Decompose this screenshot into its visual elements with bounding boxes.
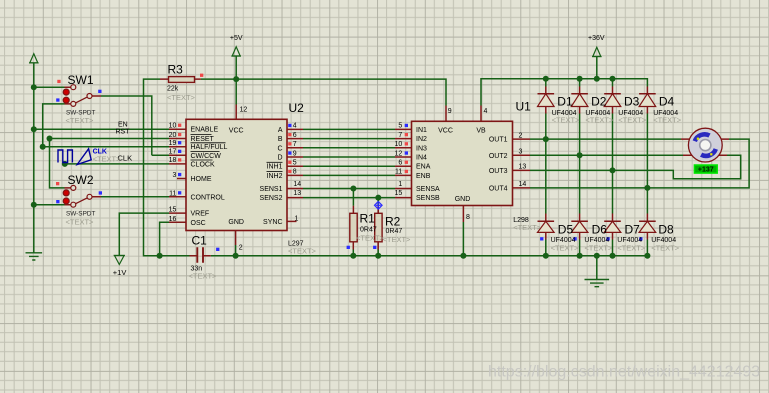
U2 SYNC pin stub (pin 1) xyxy=(287,220,297,222)
junction dot clock generator xyxy=(62,161,68,167)
diode D7 stubs xyxy=(612,214,614,240)
svg-text:4: 4 xyxy=(484,108,488,115)
svg-text:CW/CCW: CW/CCW xyxy=(191,153,222,160)
resistor R1 body xyxy=(350,213,357,242)
svg-text:D7: D7 xyxy=(625,223,641,237)
svg-text:14: 14 xyxy=(293,181,301,188)
svg-text:10: 10 xyxy=(395,141,403,148)
wire: left power vertical x=34 xyxy=(33,63,35,253)
diode D7 xyxy=(604,221,621,232)
svg-text:<TEXT>: <TEXT> xyxy=(618,115,647,124)
svg-text:<TEXT>: <TEXT> xyxy=(584,243,613,252)
svg-text:GND: GND xyxy=(455,196,471,203)
svg-text:3: 3 xyxy=(519,149,523,156)
svg-text:OUT2: OUT2 xyxy=(489,153,508,160)
svg-text:+137: +137 xyxy=(698,167,714,174)
svg-text:SENS2: SENS2 xyxy=(260,195,283,202)
R3 terminal stubs xyxy=(160,78,201,80)
svg-text:IN2: IN2 xyxy=(416,136,427,143)
svg-text:<TEXT>: <TEXT> xyxy=(552,115,581,124)
svg-text:VREF: VREF xyxy=(191,211,210,218)
U1 right pin stubs xyxy=(513,139,531,188)
junction dots bottom rail xyxy=(157,253,163,259)
svg-text:+1V: +1V xyxy=(113,268,127,277)
switch SW1 xyxy=(63,85,92,107)
junction dots sense rows xyxy=(350,186,356,192)
diode D8 xyxy=(639,221,656,232)
svg-text:4: 4 xyxy=(293,123,297,130)
svg-text:INH1: INH1 xyxy=(267,164,283,171)
ground (below diodes) xyxy=(585,280,610,287)
U1 top pin stubs (9, 4) xyxy=(446,106,481,122)
wire: SW2 pole to CONTROL row xyxy=(101,196,169,198)
wire: +5V vertical into U2 VCC xyxy=(235,56,237,105)
ground (bottom left) xyxy=(26,253,43,260)
svg-text:17: 17 xyxy=(169,149,177,156)
svg-text:C1: C1 xyxy=(192,234,208,248)
svg-text:12: 12 xyxy=(395,150,403,157)
wire: U2-U1 row C-IN3 xyxy=(303,147,395,149)
wire: U2-U1 row A-IN1 xyxy=(303,128,395,130)
SW2 pin stubs xyxy=(65,188,102,205)
wire: OUT3 row jog under motor to right terminal xyxy=(530,155,741,179)
svg-text:D6: D6 xyxy=(592,223,608,237)
svg-text:6: 6 xyxy=(398,160,402,167)
svg-text:https://blog.csdn.net/weixin_4: https://blog.csdn.net/weixin_44212493 xyxy=(488,364,760,381)
svg-text:VCC: VCC xyxy=(229,127,244,134)
resistor R2 body xyxy=(375,213,382,242)
svg-text:R3: R3 xyxy=(168,63,184,77)
wire: R1 top branch xyxy=(352,189,354,206)
wire: ENABLE row to left rail xyxy=(34,128,169,130)
svg-text:<TEXT>: <TEXT> xyxy=(288,247,317,256)
wire: CLOCK row from generator xyxy=(65,163,169,165)
svg-text:11: 11 xyxy=(169,190,176,197)
svg-text:C: C xyxy=(277,145,282,152)
diode D4 stubs xyxy=(646,87,648,114)
logic state squares (red/blue pin markers) xyxy=(56,74,643,251)
svg-text:GND: GND xyxy=(228,219,244,226)
svg-text:D3: D3 xyxy=(624,95,640,109)
svg-text:D4: D4 xyxy=(659,95,675,109)
diode D3 stubs xyxy=(612,87,614,114)
svg-text:3: 3 xyxy=(172,172,176,179)
svg-text:OSC: OSC xyxy=(191,220,206,227)
R1 terminal stubs xyxy=(352,206,354,250)
wire: SENS1-SENSA row xyxy=(303,188,395,190)
svg-text:7: 7 xyxy=(398,132,402,139)
svg-text:EN: EN xyxy=(118,121,128,128)
svg-text:<TEXT>: <TEXT> xyxy=(513,223,542,232)
svg-text:HALF/FULL: HALF/FULL xyxy=(191,144,228,151)
svg-text:OUT3: OUT3 xyxy=(489,168,508,175)
U2 right pin stubs xyxy=(287,129,303,197)
svg-text:13: 13 xyxy=(519,164,527,171)
svg-text:U2: U2 xyxy=(289,101,305,115)
svg-text:SW2: SW2 xyxy=(68,173,94,187)
svg-text:11: 11 xyxy=(395,169,402,176)
svg-text:<TEXT>: <TEXT> xyxy=(551,243,580,252)
svg-text:SW1: SW1 xyxy=(68,73,94,87)
wire: OSC row down to bottom rail xyxy=(160,222,169,255)
svg-text:D2: D2 xyxy=(591,95,607,109)
svg-text:IN4: IN4 xyxy=(416,155,427,162)
diode D5 stubs xyxy=(545,214,547,240)
wire: OUT2 row to motor xyxy=(530,154,683,156)
svg-text:<TEXT>: <TEXT> xyxy=(617,243,646,252)
wire: R2 bottom to rail xyxy=(377,250,379,256)
wire: SW1 top throw to left rail xyxy=(34,86,65,88)
wire: U2-U1 row D-IN4 xyxy=(303,156,395,158)
svg-text:2: 2 xyxy=(239,245,243,252)
wire: bottom rail C1 to D8 column xyxy=(211,255,648,257)
diode D3 xyxy=(604,94,621,107)
svg-text:ENABLE: ENABLE xyxy=(191,127,219,134)
svg-text:15: 15 xyxy=(395,190,403,197)
junction dot +5V/R3 node xyxy=(233,76,239,82)
svg-text:U1: U1 xyxy=(516,100,532,114)
wire: VREF row to +1V terminal xyxy=(119,213,169,255)
origin marker (blue diamond) xyxy=(375,202,383,210)
wire: U2-U1 row B-IN2 xyxy=(303,138,395,140)
svg-text:<TEXT>: <TEXT> xyxy=(356,234,385,243)
+5V power terminal xyxy=(231,47,241,56)
svg-text:18: 18 xyxy=(169,157,177,164)
resistor R3 body xyxy=(169,77,195,83)
U1 left pin stubs xyxy=(395,129,412,197)
U1 GND pin stub (pin 8) xyxy=(462,206,464,223)
wire: U2 GND pin to rail xyxy=(235,245,237,256)
wire: SW1 bottom throw branch down to HALF/FULL row xyxy=(43,104,65,147)
junction dot RESET/SW2 branch xyxy=(47,136,53,142)
svg-text:IN3: IN3 xyxy=(416,145,427,152)
svg-text:14: 14 xyxy=(519,181,527,188)
svg-text:0R47: 0R47 xyxy=(386,228,403,235)
svg-text:CONTROL: CONTROL xyxy=(191,194,225,201)
svg-text:A: A xyxy=(278,127,283,134)
wire: RESET row xyxy=(50,138,170,140)
wire: R1 bottom to rail xyxy=(352,250,354,256)
junction dot HALF-FULL/SW1 branch xyxy=(40,144,46,150)
diode D8 stubs xyxy=(646,214,648,240)
svg-text:8: 8 xyxy=(466,214,470,221)
wire: CW/CCW row xyxy=(152,154,169,156)
svg-text:1: 1 xyxy=(398,181,402,188)
svg-text:R2: R2 xyxy=(385,214,401,228)
svg-text:<TEXT>: <TEXT> xyxy=(651,243,680,252)
wire: SW1 pole to CW/CCW row xyxy=(101,96,152,155)
svg-text:HOME: HOME xyxy=(191,176,212,183)
diode D6 xyxy=(571,221,588,232)
svg-text:<TEXT>: <TEXT> xyxy=(93,155,122,164)
+1V terminal (points down) xyxy=(114,256,125,265)
svg-text:<TEXT>: <TEXT> xyxy=(383,235,412,244)
wire: HALF/FULL row xyxy=(43,146,169,148)
wire: +5V rail to U1 pin9 xyxy=(201,79,446,105)
wire: SENS2-SENSB row xyxy=(303,197,395,199)
svg-text:0R47: 0R47 xyxy=(360,227,377,234)
wire: D3 column xyxy=(612,79,614,256)
wire: U2-U1 row INH1-ENA xyxy=(303,165,395,167)
wire: +36V stem xyxy=(596,57,598,79)
svg-text:<TEXT>: <TEXT> xyxy=(66,116,95,125)
wire: OUT1 row to motor xyxy=(530,138,681,140)
svg-text:ENA: ENA xyxy=(416,164,431,171)
svg-text:5: 5 xyxy=(398,123,402,130)
svg-text:1: 1 xyxy=(295,215,299,222)
svg-text:<TEXT>: <TEXT> xyxy=(585,115,614,124)
svg-text:12: 12 xyxy=(240,107,248,114)
svg-text:SENSB: SENSB xyxy=(416,195,440,202)
svg-text:VB: VB xyxy=(476,127,486,134)
SW1 pin stubs xyxy=(65,87,102,104)
svg-text:RST: RST xyxy=(116,128,131,135)
svg-text:INH2: INH2 xyxy=(267,173,283,180)
svg-text:13: 13 xyxy=(293,190,301,197)
junction dots +36V rail xyxy=(543,76,549,82)
svg-text:20: 20 xyxy=(169,132,177,139)
wire: RESET branch down to SW2 top throw xyxy=(50,139,65,188)
svg-text:9: 9 xyxy=(448,108,452,115)
svg-text:<TEXT>: <TEXT> xyxy=(66,217,95,226)
wire: OUT4 row loop to motor right top xyxy=(530,139,749,188)
svg-text:VCC: VCC xyxy=(438,127,453,134)
svg-text:D8: D8 xyxy=(658,223,674,237)
op chip U1 L298 body xyxy=(412,121,513,205)
svg-text:<TEXT>: <TEXT> xyxy=(167,93,196,102)
wire: R2 top branch xyxy=(377,198,379,206)
wire: +36V top rail with ends into U1 VB and D4 xyxy=(481,79,647,106)
wire: U1 GND pin to rail xyxy=(462,222,464,256)
svg-text:8: 8 xyxy=(293,169,297,176)
diode D1 xyxy=(538,94,555,107)
wire: D1 column xyxy=(545,79,547,256)
wire: ground stem below rail xyxy=(596,256,598,280)
clock generator symbol xyxy=(58,149,91,165)
svg-text:9: 9 xyxy=(293,150,297,157)
svg-text:22k: 22k xyxy=(167,86,179,93)
svg-text:R1: R1 xyxy=(360,212,376,226)
wire: bottom rail left segment to C1 xyxy=(160,255,190,257)
svg-text:5: 5 xyxy=(293,160,297,167)
diode D2 stubs xyxy=(579,87,581,114)
svg-text:D5: D5 xyxy=(558,223,574,237)
svg-text:IN1: IN1 xyxy=(416,127,427,134)
diode D4 xyxy=(639,94,656,107)
switch SW2 xyxy=(63,185,92,207)
svg-text:CLOCK: CLOCK xyxy=(191,161,215,168)
motor terminal stubs xyxy=(681,139,729,155)
svg-text:D: D xyxy=(277,155,282,162)
U2 GND pin stub (pin 2) xyxy=(235,231,237,246)
svg-text:RESET: RESET xyxy=(191,136,215,143)
svg-text:7: 7 xyxy=(293,141,297,148)
R2 terminal stubs xyxy=(377,206,379,250)
svg-text:16: 16 xyxy=(169,216,177,223)
svg-text:+5V: +5V xyxy=(230,35,243,42)
svg-text:ENB: ENB xyxy=(416,173,431,180)
svg-text:B: B xyxy=(278,136,283,143)
+36V power terminal xyxy=(592,47,602,56)
wire: D2 column xyxy=(579,79,581,256)
svg-text:15: 15 xyxy=(169,207,177,214)
C1 terminal stubs xyxy=(190,255,211,257)
diode D5 xyxy=(538,221,555,232)
junction dots output rows / diode columns xyxy=(543,136,549,142)
svg-text:6: 6 xyxy=(293,132,297,139)
svg-text:10: 10 xyxy=(169,123,177,130)
U2 left pin stubs xyxy=(169,129,186,222)
svg-text:<TEXT>: <TEXT> xyxy=(189,272,218,281)
wire: R3 left to oscillator node xyxy=(144,79,161,256)
wire: U2-U1 row INH2-ENB xyxy=(303,174,395,176)
wire: SW2 bottom throw to left rail xyxy=(34,204,65,206)
stepper motor symbol xyxy=(688,128,722,162)
svg-text:<TEXT>: <TEXT> xyxy=(653,115,682,124)
U2 VCC pin stub (pin 12) xyxy=(235,105,237,120)
svg-text:SENSA: SENSA xyxy=(416,186,440,193)
svg-text:SYNC: SYNC xyxy=(263,219,282,226)
wire: D4 column xyxy=(646,114,648,256)
svg-text:D1: D1 xyxy=(557,95,573,109)
junction dots on left power vertical xyxy=(31,84,37,90)
diode D1 stubs xyxy=(545,87,547,114)
svg-text:OUT4: OUT4 xyxy=(489,185,508,192)
svg-text:19: 19 xyxy=(169,140,177,147)
motor angle display xyxy=(694,165,717,174)
power terminal (top left) xyxy=(29,54,39,63)
svg-text:SENS1: SENS1 xyxy=(260,186,283,193)
svg-text:+36V: +36V xyxy=(588,35,605,42)
diode D2 xyxy=(571,94,588,107)
svg-text:2: 2 xyxy=(519,132,523,139)
diode D6 stubs xyxy=(579,214,581,240)
svg-text:OUT1: OUT1 xyxy=(489,137,508,144)
capacitor C1 plates xyxy=(197,247,203,262)
op chip U2 L297 body xyxy=(186,119,287,230)
